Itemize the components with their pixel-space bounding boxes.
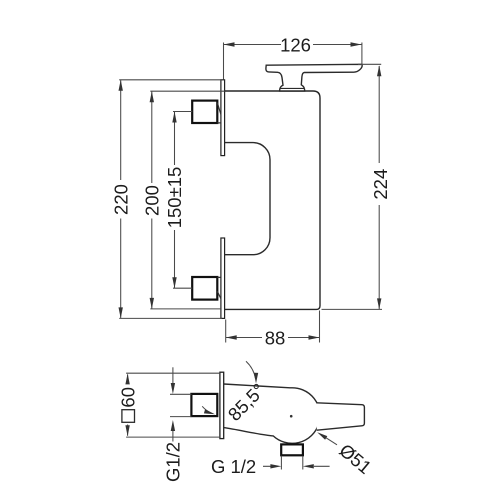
dimension 126 extension lines: [224, 43, 362, 80]
square symbol of square-60 label: [122, 410, 135, 423]
dimension 200 extension lines: [150, 91, 224, 309]
dimension square-60 line: [127, 375, 129, 436]
wall plate (bottom view, edge-on): [220, 372, 224, 438]
G 1/2 outlet dimension lines with arrows: [263, 465, 330, 467]
dimension 220 extension lines: [119, 80, 223, 319]
G1/2 inlet thread lower arrow: [172, 430, 174, 442]
dimension 224 arrows: [377, 65, 381, 309]
wall plate (edge-on, lower segment): [221, 238, 225, 318]
svg-text:224: 224: [370, 169, 391, 200]
upper connector chamfer to plate: [217, 103, 221, 123]
svg-text:G 1/2: G 1/2: [211, 456, 256, 477]
dimension square-60 extension lines: [126, 373, 220, 437]
inlet connector box (bottom view): [191, 394, 217, 416]
G1/2 inlet thread dimension upper arrow: [172, 367, 174, 384]
svg-text:60: 60: [117, 387, 138, 408]
G1/2 inlet thread extension lines: [170, 394, 191, 416]
dimension 200 line: [151, 91, 153, 309]
center dot of valve head: [290, 415, 293, 418]
spout (bottom view): [317, 403, 365, 430]
upper inlet connector box: [192, 101, 217, 123]
lever base seam: [281, 87, 305, 89]
body inner contour (rounded recess): [225, 143, 270, 255]
svg-text:200: 200: [141, 185, 162, 216]
dimension 224 extension lines: [322, 64, 383, 309]
dimension 88 line: [226, 337, 320, 339]
dimension 224 line: [378, 66, 380, 309]
dimension 150+-15 line: [174, 112, 176, 289]
svg-text:88: 88: [265, 327, 286, 348]
svg-text:150±15: 150±15: [164, 167, 185, 229]
svg-text:G1/2: G1/2: [162, 442, 183, 482]
lower inlet connector box: [192, 277, 217, 300]
G 1/2 outlet extension lines: [281, 456, 302, 470]
dimension 88 extension lines: [226, 311, 320, 343]
dimension 126 arrows: [224, 42, 362, 46]
body silhouette: top surface, round valve head arc, bottom contour: [224, 384, 320, 443]
faucet body outline: [225, 91, 320, 309]
85.5 degree dimension arc upper fragment: [246, 361, 256, 379]
wall plate (edge-on, upper segment): [221, 80, 225, 156]
dimension 88 arrows: [226, 335, 320, 339]
outlet nut G1/2: [281, 444, 303, 455]
lower connector chamfer to plate: [217, 277, 221, 298]
svg-text:126: 126: [280, 34, 311, 55]
lever handle: [266, 64, 362, 91]
85.5 degree dimension arc lower fragment: [202, 406, 210, 413]
svg-text:220: 220: [110, 184, 131, 215]
dimension 200 arrows: [150, 91, 154, 309]
dimension 150+-15 extension lines: [173, 112, 192, 289]
dimension square-60 arrows: [125, 373, 129, 436]
O51 leader line and arrow: [322, 435, 337, 445]
dimension 126 line: [224, 44, 362, 46]
dimension 150+-15 arrows: [172, 112, 176, 289]
dimension 220 line: [120, 80, 122, 319]
dimension 220 arrows: [119, 80, 123, 319]
